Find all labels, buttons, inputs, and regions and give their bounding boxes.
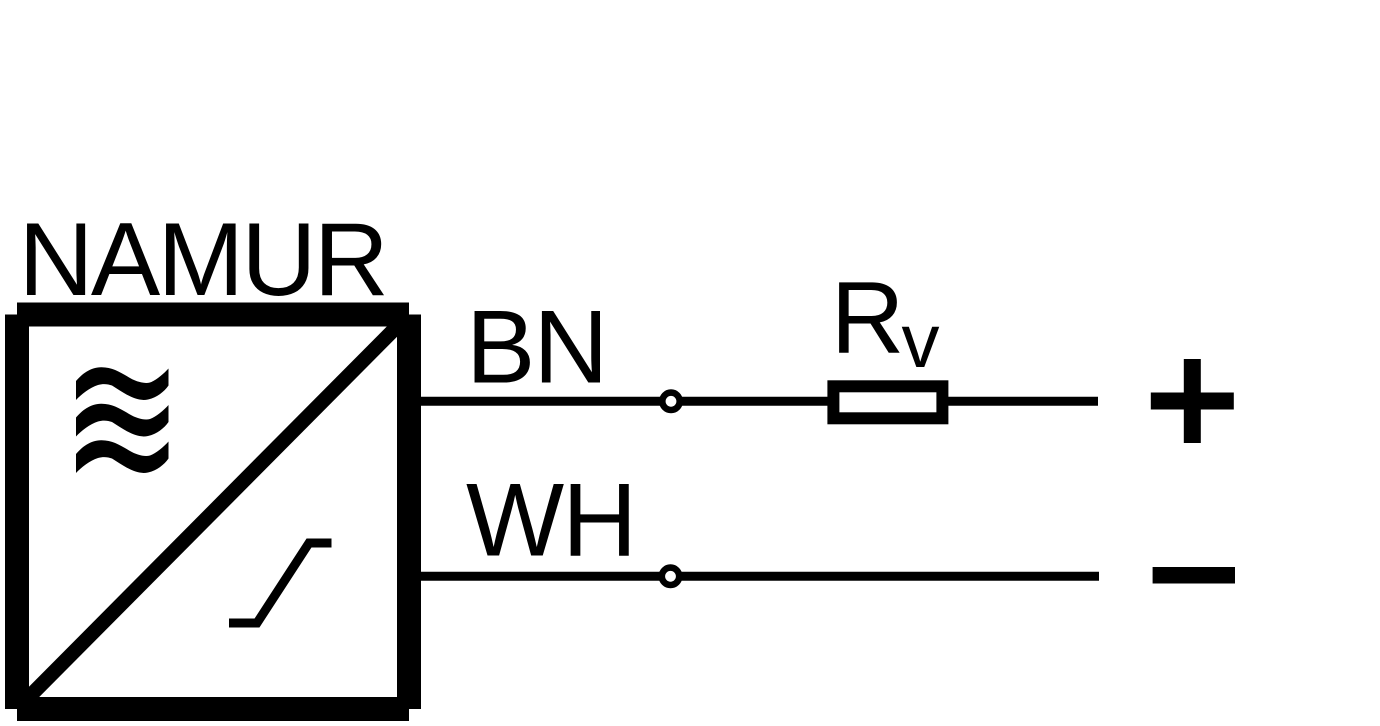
inductive field symbol (triple wave) xyxy=(76,367,169,473)
wire BN xyxy=(421,397,1098,406)
svg-text:v: v xyxy=(902,299,940,384)
svg-text:WH: WH xyxy=(466,462,635,578)
svg-text:BN: BN xyxy=(466,290,606,406)
resistor Rv xyxy=(833,386,942,418)
sensor box U1 (NAMUR proximity sensor) xyxy=(17,315,409,710)
plus terminal xyxy=(1151,359,1234,443)
switching output symbol (ramp) xyxy=(229,543,332,623)
minus terminal xyxy=(1153,567,1235,584)
terminal node on WH wire xyxy=(662,568,679,585)
svg-text:R: R xyxy=(831,261,905,375)
sensor box diagonal divider xyxy=(27,325,399,700)
wire WH xyxy=(421,572,1099,581)
svg-text:NAMUR: NAMUR xyxy=(19,202,387,318)
terminal node on BN wire xyxy=(662,393,679,410)
